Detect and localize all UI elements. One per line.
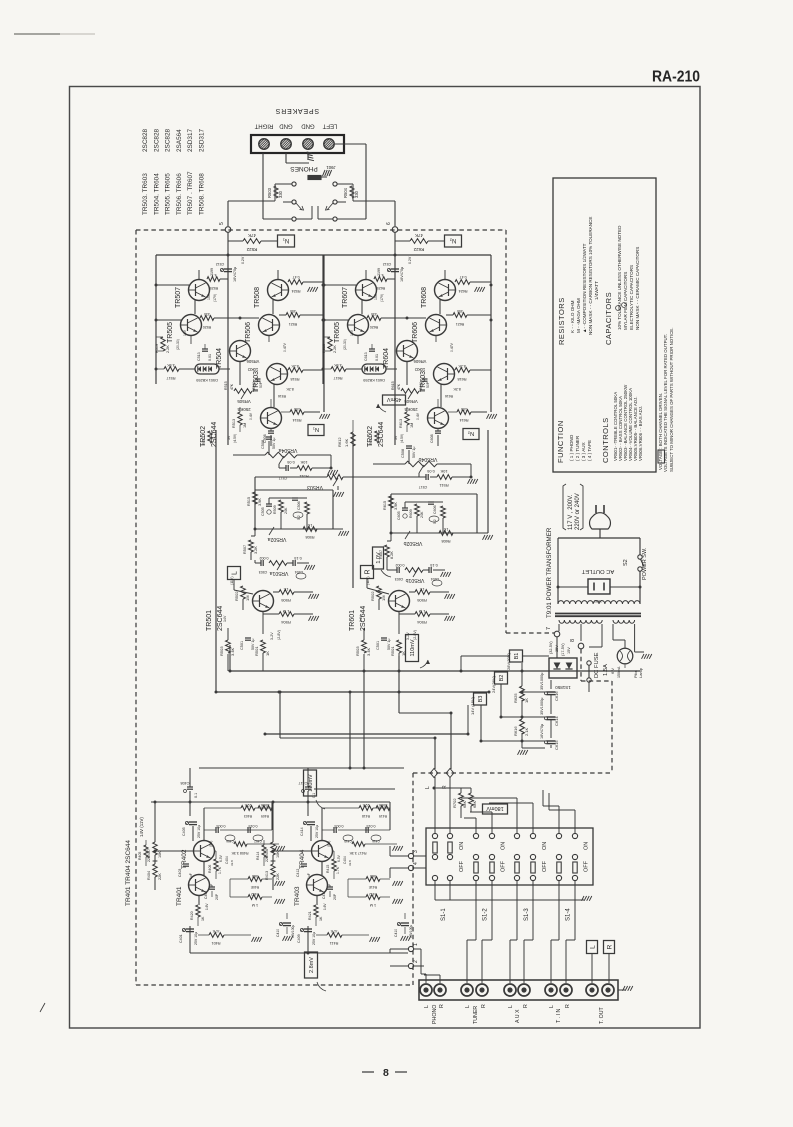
- svg-text:50V 1μ: 50V 1μ: [412, 447, 416, 458]
- svg-text:350K: 350K: [378, 803, 387, 807]
- svg-text:VR501b: VR501b: [406, 577, 425, 583]
- svg-text:8.2K: 8.2K: [286, 387, 294, 391]
- svg-text:C614: C614: [554, 716, 559, 726]
- svg-text:R612: R612: [337, 437, 342, 447]
- svg-text:C404: C404: [343, 856, 347, 864]
- svg-text:C412: C412: [296, 869, 300, 877]
- svg-text:AC OUTLET: AC OUTLET: [581, 568, 614, 574]
- svg-text:TR505. TR605: TR505. TR605: [165, 173, 172, 215]
- svg-text:47K: 47K: [230, 383, 234, 390]
- svg-text:OFF: OFF: [542, 860, 548, 872]
- svg-text:C403: C403: [178, 869, 182, 877]
- svg-text:C605: C605: [397, 511, 401, 520]
- svg-text:ON: ON: [542, 842, 548, 850]
- svg-text:220V or 240V: 220V or 240V: [575, 493, 581, 530]
- svg-text:R: R: [365, 569, 372, 574]
- svg-text:R508: R508: [305, 535, 314, 539]
- svg-text:1K: 1K: [419, 587, 424, 592]
- svg-text:C401: C401: [179, 934, 183, 943]
- svg-text:C408: C408: [180, 781, 189, 785]
- svg-text:(4.5V): (4.5V): [233, 434, 237, 443]
- svg-text:0.4T: 0.4T: [292, 275, 300, 279]
- svg-text:(2-8V): (2-8V): [277, 630, 281, 640]
- svg-text:22K: 22K: [265, 855, 269, 862]
- svg-text:L: L: [508, 1005, 514, 1008]
- svg-text:C610: C610: [419, 382, 423, 390]
- svg-text:R622: R622: [413, 247, 424, 252]
- svg-text:1μF: 1μF: [189, 873, 193, 879]
- svg-text:3-2V: 3-2V: [270, 632, 274, 640]
- svg-text:22K: 22K: [244, 803, 251, 807]
- svg-text:3-2V: 3-2V: [406, 632, 410, 640]
- svg-text:3.9K: 3.9K: [334, 363, 342, 367]
- svg-text:560: 560: [370, 874, 376, 878]
- svg-text:PHONO: PHONO: [432, 1005, 438, 1024]
- svg-text:C409: C409: [297, 934, 301, 943]
- svg-text:R616: R616: [445, 394, 453, 398]
- svg-text:R614: R614: [459, 418, 468, 422]
- svg-text:( 2 ) TUNER: ( 2 ) TUNER: [575, 435, 580, 461]
- svg-text:C513: C513: [197, 352, 201, 361]
- svg-text:20P: 20P: [215, 893, 219, 900]
- svg-text:(4.5V): (4.5V): [400, 434, 404, 443]
- svg-text:S1-1: S1-1: [441, 908, 447, 921]
- svg-text:TR503. TR603: TR503. TR603: [142, 173, 149, 215]
- svg-text:TR504. TR604: TR504. TR604: [153, 173, 160, 215]
- svg-text:VR505: VR505: [237, 399, 251, 404]
- svg-text:250KB: 250KB: [404, 407, 417, 412]
- svg-text:B3: B3: [478, 696, 484, 703]
- svg-text:C603: C603: [395, 577, 404, 581]
- svg-text:MYLAR FILM CAPACITORS: MYLAR FILM CAPACITORS: [623, 272, 628, 330]
- svg-text:1K: 1K: [319, 916, 323, 921]
- svg-text:R420: R420: [190, 911, 194, 920]
- svg-text:TR401: TR401: [176, 886, 183, 906]
- svg-text:▲- -COMPOSITION RESISTORS 1: ▲- -COMPOSITION RESISTORS 1/2WATT: [582, 243, 587, 333]
- svg-text:R403: R403: [244, 814, 252, 818]
- svg-text:R409: R409: [261, 814, 269, 818]
- svg-text:L: L: [549, 1005, 555, 1008]
- svg-text:110mV: 110mV: [410, 639, 416, 656]
- svg-text:Lamp: Lamp: [638, 667, 643, 678]
- svg-text:VR501a: VR501a: [270, 570, 289, 576]
- svg-text:1 M: 1 M: [283, 609, 290, 614]
- svg-text:14V: 14V: [359, 615, 363, 622]
- svg-text:R612: R612: [369, 436, 373, 445]
- svg-text:35V1000μ: 35V1000μ: [540, 673, 544, 690]
- svg-text:0.1: 0.1: [312, 793, 316, 798]
- svg-text:C512: C512: [383, 262, 392, 266]
- svg-text:C405: C405: [182, 827, 186, 836]
- svg-text:TR606: TR606: [412, 322, 419, 343]
- svg-text:OFF: OFF: [501, 860, 507, 872]
- svg-text:GND: GND: [279, 123, 293, 129]
- svg-text:VR506.VR606 - - BIAS ADJ.: VR506.VR606 - - BIAS ADJ.: [638, 406, 643, 461]
- svg-text:5: 5: [219, 222, 225, 225]
- svg-text:50V 1μ: 50V 1μ: [251, 639, 255, 650]
- svg-text:24V(26V): 24V(26V): [491, 675, 496, 693]
- svg-text:L: L: [589, 945, 596, 949]
- svg-text:R522: R522: [246, 247, 257, 252]
- svg-text:16V: 16V: [183, 329, 187, 336]
- svg-text:33.8: 33.8: [348, 860, 352, 866]
- svg-text:C501: C501: [240, 641, 244, 650]
- svg-text:R414: R414: [256, 852, 260, 860]
- svg-text:C414: C414: [300, 827, 304, 836]
- svg-text:0.1: 0.1: [194, 793, 198, 798]
- svg-text:10K: 10K: [158, 851, 162, 858]
- svg-text:N₂: N₂: [449, 237, 456, 243]
- svg-text:14V (15V): 14V (15V): [470, 696, 475, 715]
- svg-text:R625: R625: [513, 693, 518, 703]
- svg-text:R504: R504: [280, 620, 290, 625]
- svg-text:C608: C608: [430, 434, 434, 443]
- svg-text:2.8mV: 2.8mV: [309, 957, 315, 973]
- svg-text:C616: C616: [554, 691, 559, 701]
- svg-text:( 3 ) AUX: ( 3 ) AUX: [581, 442, 586, 461]
- svg-text:150mA: 150mA: [617, 666, 621, 678]
- svg-text:R401: R401: [211, 941, 220, 945]
- svg-text:2SA564: 2SA564: [176, 129, 183, 152]
- svg-text:1.7K: 1.7K: [336, 866, 340, 874]
- svg-text:0.003: 0.003: [217, 824, 226, 828]
- svg-text:350K: 350K: [260, 803, 269, 807]
- svg-text:TR403: TR403: [294, 886, 301, 906]
- svg-text:TR401 TR404 2SC644: TR401 TR404 2SC644: [125, 840, 132, 906]
- svg-text:R609: R609: [409, 509, 413, 518]
- svg-text:1.6K: 1.6K: [344, 438, 349, 447]
- svg-text:16V470μ: 16V470μ: [400, 267, 404, 282]
- svg-text:R509: R509: [273, 505, 277, 514]
- svg-text:16V470μ: 16V470μ: [233, 267, 237, 282]
- svg-text:R613: R613: [399, 419, 403, 428]
- svg-text:2SD317: 2SD317: [199, 128, 206, 152]
- svg-text:R616: R616: [513, 726, 518, 736]
- svg-text:K - - KILO OHM: K - - KILO OHM: [570, 300, 575, 333]
- svg-text:R620: R620: [370, 325, 379, 329]
- svg-text:R502: R502: [370, 591, 375, 601]
- svg-text:22K: 22K: [276, 873, 280, 880]
- svg-text:1M: 1M: [410, 423, 414, 428]
- svg-text:R512: R512: [202, 436, 206, 445]
- svg-text:2.1K: 2.1K: [524, 727, 529, 736]
- svg-text:VR604b: VR604b: [419, 456, 438, 462]
- svg-text:( 4 ) TAPE: ( 4 ) TAPE: [587, 440, 592, 461]
- svg-text:(17V): (17V): [380, 294, 384, 302]
- svg-text:0.05: 0.05: [287, 460, 294, 464]
- svg-text:M - -MAGA OHM: M - -MAGA OHM: [576, 298, 581, 333]
- svg-text:R402: R402: [251, 892, 259, 896]
- svg-text:C615: C615: [554, 740, 559, 750]
- svg-text:DC FUSE: DC FUSE: [594, 652, 600, 678]
- svg-text:6: 6: [386, 222, 392, 225]
- svg-text:4.7: 4.7: [212, 273, 217, 277]
- svg-text:R621: R621: [456, 322, 465, 326]
- svg-text:SPEAKERS: SPEAKERS: [275, 107, 319, 114]
- svg-text:3.9K: 3.9K: [394, 502, 398, 510]
- svg-text:4: 4: [413, 862, 419, 865]
- svg-text:35V: 35V: [555, 645, 559, 652]
- svg-text:1.7K: 1.7K: [218, 866, 222, 874]
- svg-text:R618: R618: [457, 377, 466, 381]
- svg-text:CAPACITORS: CAPACITORS: [604, 292, 613, 345]
- svg-text:VR506: VR506: [246, 359, 259, 364]
- svg-text:R503: R503: [355, 646, 360, 656]
- svg-text:(11V): (11V): [366, 576, 370, 585]
- svg-text:(5Ω): (5Ω): [209, 841, 213, 847]
- svg-text:1M: 1M: [245, 595, 250, 601]
- svg-text:6-5V: 6-5V: [219, 854, 223, 862]
- svg-text:T9:01 POWER TRANSFORMER: T9:01 POWER TRANSFORMER: [546, 527, 553, 618]
- svg-text:8.2K: 8.2K: [390, 551, 394, 559]
- svg-text:47K: 47K: [248, 233, 256, 238]
- svg-text:ON: ON: [459, 842, 465, 850]
- svg-text:100: 100: [461, 407, 467, 411]
- svg-text:3.9K: 3.9K: [258, 498, 262, 506]
- svg-text:R615: R615: [383, 501, 387, 510]
- svg-text:R624: R624: [458, 289, 467, 293]
- svg-text:C410: C410: [394, 929, 398, 937]
- svg-text:C505: C505: [261, 507, 265, 516]
- svg-text:R519: R519: [155, 344, 159, 353]
- svg-text:250KB: 250KB: [237, 407, 250, 412]
- svg-text:S1-3: S1-3: [524, 908, 530, 921]
- svg-text:(20-30): (20-30): [343, 339, 347, 350]
- svg-text:OFF: OFF: [459, 860, 465, 872]
- svg-text:(20-30): (20-30): [176, 339, 180, 350]
- svg-text:0.015: 0.015: [249, 824, 258, 828]
- svg-text:25V 10μ: 25V 10μ: [312, 932, 316, 945]
- svg-text:C510: C510: [252, 382, 256, 390]
- svg-text:8.2K: 8.2K: [453, 387, 461, 391]
- svg-text:TR506: TR506: [245, 322, 252, 343]
- svg-text:1.5A: 1.5A: [603, 664, 609, 676]
- svg-text:B2: B2: [499, 675, 505, 682]
- svg-text:7: 7: [546, 627, 552, 630]
- svg-text:R511: R511: [439, 483, 449, 488]
- svg-text:N₁: N₁: [313, 426, 319, 432]
- svg-text:1/4WATT: 1/4WATT: [594, 281, 599, 300]
- svg-text:16V100μ: 16V100μ: [409, 925, 413, 938]
- svg-text:8: 8: [570, 639, 576, 642]
- svg-text:R502: R502: [234, 591, 239, 601]
- svg-text:R: R: [439, 1004, 445, 1008]
- svg-text:4.7: 4.7: [379, 273, 384, 277]
- svg-text:560: 560: [252, 874, 258, 878]
- svg-text:0.01: 0.01: [208, 354, 212, 361]
- svg-text:2SC828: 2SC828: [153, 128, 160, 152]
- svg-text:T . I N: T . I N: [556, 1009, 562, 1023]
- svg-text:R505: R505: [280, 598, 290, 603]
- svg-text:TR608: TR608: [421, 287, 428, 308]
- svg-text:330: 330: [278, 190, 283, 198]
- svg-text:1K: 1K: [307, 523, 312, 527]
- svg-text:PHONES: PHONES: [290, 165, 318, 172]
- svg-text:R617: R617: [333, 376, 342, 380]
- svg-text:R405: R405: [138, 852, 142, 860]
- svg-text:1.0V: 1.0V: [376, 552, 382, 564]
- svg-text:SUBJECT TO MINOR CHANGES: SUBJECT TO MINOR CHANGES OF PARTS WITHOU…: [669, 328, 674, 472]
- svg-text:10K: 10K: [276, 851, 280, 858]
- svg-text:22K: 22K: [158, 873, 162, 880]
- svg-text:1.6V: 1.6V: [323, 903, 327, 910]
- svg-text:16V100μ: 16V100μ: [291, 925, 295, 938]
- svg-text:R513: R513: [232, 419, 236, 428]
- svg-text:C415: C415: [344, 839, 352, 843]
- svg-text:50V 1μ: 50V 1μ: [387, 639, 391, 650]
- svg-text:A U X: A U X: [515, 1009, 521, 1023]
- svg-text:TR501: TR501: [206, 610, 213, 631]
- svg-text:16V: 16V: [350, 329, 354, 336]
- svg-text:RESISTORS: RESISTORS: [557, 297, 566, 345]
- svg-text:C517: C517: [419, 485, 428, 489]
- svg-text:28V(30V): 28V(30V): [506, 652, 511, 670]
- svg-text:2SD317: 2SD317: [187, 128, 194, 152]
- svg-text:0.2V: 0.2V: [241, 256, 245, 264]
- svg-text:N₂: N₂: [468, 430, 474, 436]
- svg-text:R505: R505: [416, 598, 426, 603]
- svg-text:R406: R406: [208, 865, 212, 873]
- svg-text:R404: R404: [147, 871, 151, 880]
- svg-text:1K: 1K: [201, 916, 205, 921]
- svg-text:VR502a: VR502a: [268, 536, 287, 542]
- svg-text:8: 8: [383, 1067, 389, 1079]
- svg-text:3: 3: [413, 850, 419, 853]
- svg-text:2.2K: 2.2K: [166, 345, 170, 353]
- svg-text:47K: 47K: [330, 929, 337, 933]
- svg-text:C404: C404: [225, 856, 229, 864]
- svg-text:0.2V: 0.2V: [408, 256, 412, 264]
- svg-text:R418: R418: [362, 814, 370, 818]
- svg-text:5V: 5V: [227, 435, 231, 440]
- svg-text:VR502b: VR502b: [404, 540, 423, 546]
- svg-text:24K: 24K: [420, 511, 424, 518]
- svg-text:1K: 1K: [443, 527, 448, 531]
- svg-text:0.003: 0.003: [335, 824, 344, 828]
- svg-text:R619: R619: [322, 344, 326, 353]
- svg-text:TR505: TR505: [167, 322, 174, 343]
- svg-text:35V1000μ: 35V1000μ: [540, 698, 544, 715]
- svg-text:C506: C506: [297, 501, 301, 510]
- svg-text:0.2: 0.2: [433, 519, 437, 524]
- svg-text:1 M: 1 M: [419, 609, 426, 614]
- svg-text:C416: C416: [372, 839, 380, 843]
- svg-text:2.2K: 2.2K: [333, 345, 337, 353]
- svg-text:15V: 15V: [374, 293, 378, 300]
- svg-text:0.002: 0.002: [260, 556, 269, 560]
- svg-text:R413: R413: [265, 871, 269, 880]
- svg-text:47K: 47K: [415, 233, 423, 238]
- svg-text:1μF: 1μF: [307, 873, 311, 879]
- svg-text:S2: S2: [623, 559, 629, 566]
- svg-text:L: L: [425, 786, 431, 789]
- svg-text:50V 1μ: 50V 1μ: [272, 438, 276, 449]
- svg-text:R: R: [606, 944, 613, 949]
- svg-text:10% TOLERANCE UNLESS OTHERW: 10% TOLERANCE UNLESS OTHERWISE NOTED: [617, 225, 622, 330]
- svg-text:R507: R507: [243, 545, 247, 554]
- svg-text:R517: R517: [166, 376, 175, 380]
- svg-text:VR504a: VR504a: [279, 447, 298, 453]
- svg-text:D501 KB259: D501 KB259: [196, 378, 218, 382]
- svg-text:C613: C613: [364, 352, 368, 361]
- svg-text:N₁: N₁: [283, 237, 289, 243]
- svg-text:3.9K: 3.9K: [167, 363, 175, 367]
- svg-text:10K: 10K: [440, 469, 447, 474]
- svg-text:0.15: 0.15: [294, 556, 301, 560]
- svg-text:TR508: TR508: [254, 287, 261, 308]
- svg-text:C606: C606: [433, 505, 437, 514]
- svg-text:25V 10μ: 25V 10μ: [315, 825, 319, 838]
- svg-text:0.4V: 0.4V: [416, 412, 420, 420]
- svg-text:R40E: R40E: [250, 885, 259, 889]
- svg-text:15V: 15V: [207, 293, 211, 300]
- svg-text:R516: R516: [278, 394, 286, 398]
- svg-text:L: L: [424, 1005, 430, 1008]
- svg-text:R: R: [523, 1004, 529, 1008]
- svg-text:OFF: OFF: [584, 860, 590, 872]
- svg-text:R515: R515: [247, 497, 251, 506]
- svg-text:CONTROLS: CONTROLS: [601, 417, 610, 463]
- svg-text:R408 3.3K: R408 3.3K: [231, 851, 249, 855]
- svg-text:1M: 1M: [381, 595, 386, 601]
- svg-text:1 M: 1 M: [252, 903, 258, 907]
- svg-text:120mV: 120mV: [308, 774, 314, 792]
- svg-text:16V470μ: 16V470μ: [540, 724, 544, 739]
- svg-text:C512: C512: [216, 262, 225, 266]
- svg-text:TR507: TR507: [175, 287, 182, 308]
- svg-text:5V: 5V: [394, 435, 398, 440]
- svg-text:R41E: R41E: [368, 885, 377, 889]
- svg-text:8.2K: 8.2K: [458, 364, 466, 368]
- svg-text:L: L: [232, 571, 239, 575]
- svg-text:350: 350: [290, 309, 296, 313]
- svg-text:RIGHT: RIGHT: [254, 123, 273, 129]
- svg-text:C410: C410: [276, 929, 280, 937]
- svg-text:J901: J901: [326, 165, 336, 170]
- svg-text:NON MASK - - CERAMIC CAPAC: NON MASK - - CERAMIC CAPACITORS: [635, 247, 640, 330]
- svg-text:0.2: 0.2: [297, 515, 301, 520]
- svg-text:(5Ω): (5Ω): [327, 841, 331, 847]
- svg-text:R625: R625: [377, 286, 386, 290]
- svg-text:B1: B1: [514, 653, 520, 660]
- svg-text:C407: C407: [254, 839, 262, 843]
- svg-text:1S1850: 1S1850: [555, 685, 571, 690]
- svg-text:TR607: TR607: [342, 287, 349, 308]
- svg-text:TR507 . TR607: TR507 . TR607: [187, 171, 194, 215]
- svg-text:R514: R514: [292, 418, 301, 422]
- svg-text:ELECTROLYTIC CAPACITORS: ELECTROLYTIC CAPACITORS: [629, 265, 634, 330]
- svg-text:R412: R412: [369, 892, 377, 896]
- svg-text:15V: 15V: [567, 647, 571, 654]
- svg-text:R608: R608: [441, 539, 450, 543]
- svg-text:10K: 10K: [300, 460, 307, 465]
- svg-text:R: R: [565, 1004, 571, 1008]
- svg-text:3.4K: 3.4K: [366, 647, 371, 656]
- svg-text:VR503: VR503: [307, 484, 323, 490]
- svg-text:2: 2: [413, 960, 419, 963]
- svg-text:117 V , 200V.: 117 V , 200V.: [568, 494, 574, 530]
- svg-text:(17-5V): (17-5V): [561, 643, 565, 656]
- svg-text:1: 1: [413, 943, 419, 946]
- svg-text:0.15: 0.15: [430, 563, 437, 567]
- svg-text:68K: 68K: [472, 801, 477, 808]
- svg-text:VOLTAGE IS INDICATED THE S: VOLTAGE IS INDICATED THE SIGNAL LEVEL FO…: [663, 334, 668, 472]
- svg-text:TR605: TR605: [334, 322, 341, 343]
- svg-text:24K: 24K: [284, 507, 288, 514]
- svg-text:3.4K: 3.4K: [230, 647, 235, 656]
- svg-text:ON: ON: [501, 842, 507, 850]
- svg-text:C503: C503: [259, 570, 268, 574]
